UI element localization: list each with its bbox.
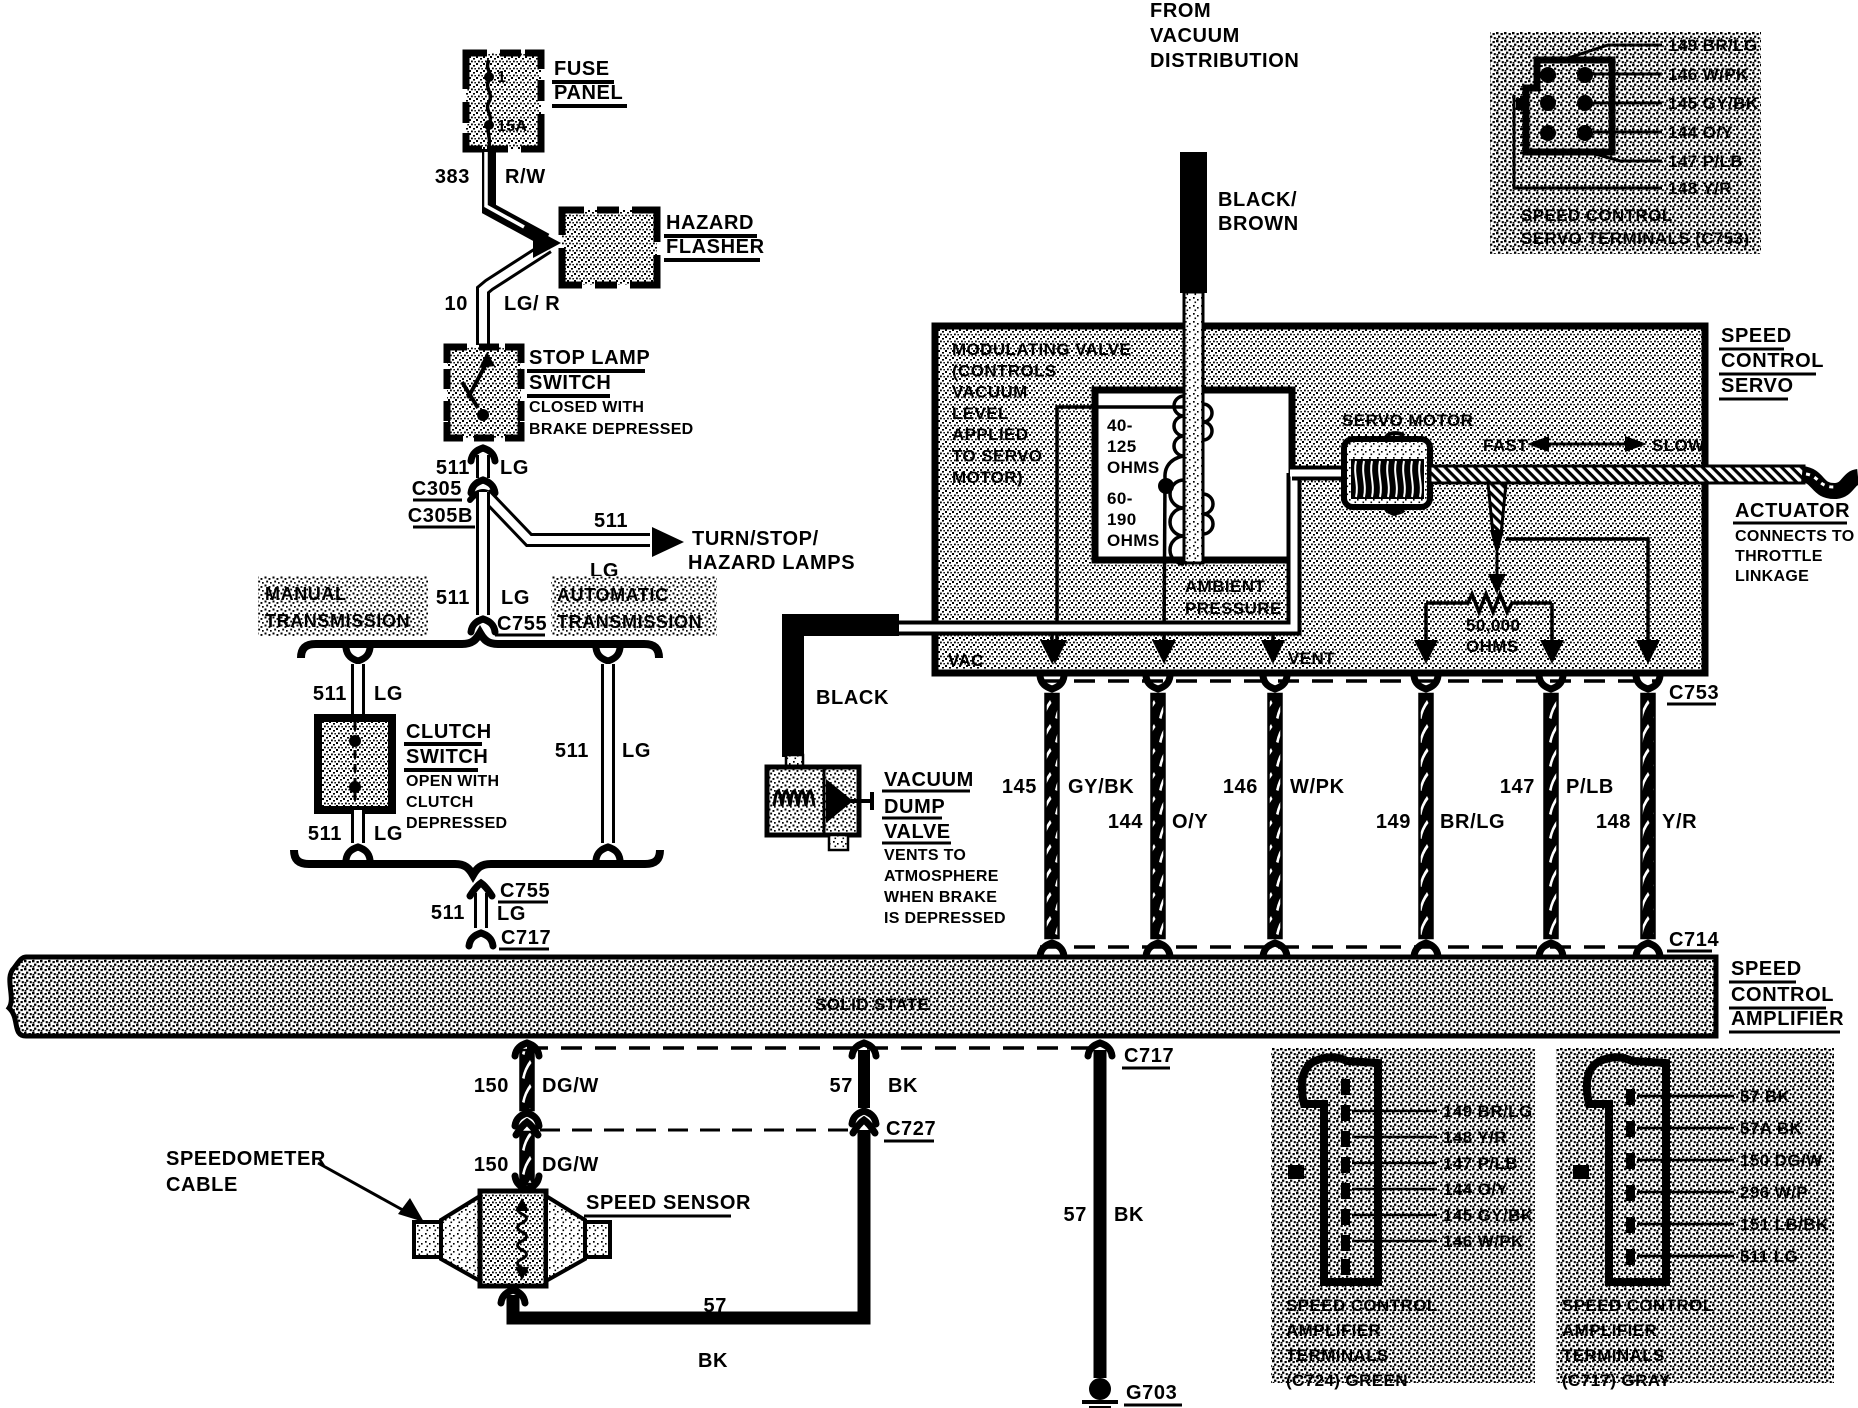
svg-text:DEPRESSED: DEPRESSED	[406, 815, 507, 832]
svg-text:DG/W: DG/W	[542, 1154, 599, 1176]
svg-text:SPEED CONTROL: SPEED CONTROL	[1562, 1296, 1714, 1315]
svg-text:BLACK/: BLACK/	[1218, 189, 1297, 211]
svg-text:P/LB: P/LB	[1566, 776, 1614, 798]
svg-text:511: 511	[431, 902, 465, 924]
svg-text:SPEED: SPEED	[1721, 325, 1792, 347]
svg-text:145 GY/BK: 145 GY/BK	[1668, 94, 1759, 113]
svg-text:40-: 40-	[1107, 416, 1133, 435]
svg-text:TO SERVO: TO SERVO	[952, 447, 1042, 466]
svg-text:C753: C753	[1669, 682, 1719, 704]
svg-text:(C717) GRAY: (C717) GRAY	[1562, 1371, 1671, 1390]
svg-text:C755: C755	[500, 880, 550, 902]
svg-text:AMPLIFIER: AMPLIFIER	[1731, 1008, 1844, 1030]
svg-text:149 BR/LG: 149 BR/LG	[1443, 1102, 1533, 1121]
svg-text:60-: 60-	[1107, 489, 1133, 508]
svg-text:O/Y: O/Y	[1172, 811, 1208, 833]
svg-text:STOP LAMP: STOP LAMP	[529, 347, 650, 369]
svg-text:SLOW: SLOW	[1652, 436, 1705, 455]
svg-text:151 LB/BK: 151 LB/BK	[1740, 1215, 1829, 1234]
svg-text:148 Y/R: 148 Y/R	[1443, 1128, 1507, 1147]
svg-text:C755: C755	[497, 613, 547, 635]
svg-text:C727: C727	[886, 1118, 936, 1140]
svg-text:148 Y/R: 148 Y/R	[1668, 179, 1732, 198]
svg-text:W/PK: W/PK	[1290, 776, 1345, 798]
svg-text:SPEED: SPEED	[1731, 958, 1802, 980]
svg-text:57A BK: 57A BK	[1740, 1119, 1803, 1138]
svg-text:146 W/PK: 146 W/PK	[1443, 1232, 1524, 1251]
svg-text:VAC: VAC	[948, 651, 984, 670]
svg-text:LG: LG	[622, 740, 651, 762]
svg-text:VENTS TO: VENTS TO	[884, 847, 966, 864]
svg-text:AMPLIFIER: AMPLIFIER	[1286, 1321, 1381, 1340]
svg-text:FLASHER: FLASHER	[666, 236, 765, 258]
svg-text:THROTTLE: THROTTLE	[1735, 548, 1823, 565]
svg-text:G703: G703	[1126, 1382, 1177, 1404]
svg-text:CONTROL: CONTROL	[1731, 984, 1834, 1006]
svg-text:SPEED SENSOR: SPEED SENSOR	[586, 1192, 751, 1214]
svg-text:OHMS: OHMS	[1107, 531, 1160, 550]
svg-text:LEVEL: LEVEL	[952, 404, 1009, 423]
svg-text:DISTRIBUTION: DISTRIBUTION	[1150, 50, 1299, 72]
svg-text:AUTOMATIC: AUTOMATIC	[557, 585, 669, 605]
svg-text:C305: C305	[412, 478, 462, 500]
svg-text:CABLE: CABLE	[166, 1174, 238, 1196]
svg-text:511: 511	[555, 740, 589, 762]
svg-text:511: 511	[436, 457, 470, 479]
svg-text:144 O/Y: 144 O/Y	[1668, 123, 1733, 142]
svg-text:LINKAGE: LINKAGE	[1735, 568, 1809, 585]
svg-text:TRANSMISSION: TRANSMISSION	[265, 611, 410, 631]
svg-text:C717: C717	[1124, 1045, 1174, 1067]
svg-text:SERVO: SERVO	[1721, 375, 1794, 397]
svg-text:TERMINALS: TERMINALS	[1286, 1346, 1389, 1365]
svg-text:LG: LG	[497, 903, 526, 925]
svg-text:BK: BK	[1114, 1204, 1144, 1226]
svg-text:C717: C717	[501, 927, 551, 949]
svg-text:CLUTCH: CLUTCH	[406, 721, 492, 743]
svg-text:AMBIENT: AMBIENT	[1185, 577, 1265, 596]
svg-text:150 DG/W: 150 DG/W	[1740, 1151, 1823, 1170]
svg-text:BROWN: BROWN	[1218, 213, 1299, 235]
svg-text:OPEN WITH: OPEN WITH	[406, 773, 499, 790]
svg-text:TRANSMISSION: TRANSMISSION	[557, 612, 702, 632]
svg-text:CLUTCH: CLUTCH	[406, 794, 474, 811]
svg-text:(CONTROLS: (CONTROLS	[952, 361, 1057, 380]
svg-text:511 LG: 511 LG	[1740, 1247, 1798, 1266]
svg-text:146: 146	[1223, 776, 1258, 798]
svg-text:MOTOR): MOTOR)	[952, 468, 1023, 487]
svg-text:LG: LG	[374, 683, 403, 705]
svg-text:125: 125	[1107, 437, 1137, 456]
svg-text:50,000: 50,000	[1466, 616, 1520, 635]
svg-text:HAZARD: HAZARD	[666, 212, 754, 234]
svg-text:C714: C714	[1669, 929, 1719, 951]
svg-text:PRESSURE: PRESSURE	[1185, 599, 1282, 618]
svg-text:147: 147	[1500, 776, 1535, 798]
svg-text:144 O/Y: 144 O/Y	[1443, 1180, 1508, 1199]
svg-text:SOLID STATE: SOLID STATE	[815, 995, 929, 1014]
svg-text:HAZARD LAMPS: HAZARD LAMPS	[688, 552, 855, 574]
svg-text:MODULATING VALVE: MODULATING VALVE	[952, 340, 1131, 359]
svg-text:APPLIED: APPLIED	[952, 425, 1028, 444]
svg-text:145: 145	[1002, 776, 1037, 798]
svg-text:150: 150	[474, 1075, 509, 1097]
svg-text:SWITCH: SWITCH	[529, 372, 611, 394]
svg-text:WHEN BRAKE: WHEN BRAKE	[884, 889, 997, 906]
svg-text:511: 511	[436, 587, 470, 609]
svg-text:ACTUATOR: ACTUATOR	[1735, 500, 1850, 522]
svg-text:146 W/PK: 146 W/PK	[1668, 65, 1749, 84]
svg-text:GY/BK: GY/BK	[1068, 776, 1134, 798]
svg-text:VALVE: VALVE	[884, 821, 951, 843]
svg-text:147 P/LB: 147 P/LB	[1668, 152, 1743, 171]
svg-text:C305B: C305B	[408, 505, 473, 527]
svg-text:145 GY/BK: 145 GY/BK	[1443, 1206, 1534, 1225]
svg-text:AMPLIFIER: AMPLIFIER	[1562, 1321, 1657, 1340]
svg-text:FROM: FROM	[1150, 0, 1211, 22]
svg-text:VACUUM: VACUUM	[952, 383, 1028, 402]
svg-text:LG: LG	[500, 457, 529, 479]
svg-text:15A: 15A	[497, 118, 527, 135]
svg-text:(C724) GREEN: (C724) GREEN	[1286, 1371, 1408, 1390]
svg-text:511: 511	[313, 683, 347, 705]
svg-text:LG: LG	[374, 823, 403, 845]
svg-text:296 W/P: 296 W/P	[1740, 1183, 1808, 1202]
svg-text:OHMS: OHMS	[1466, 637, 1519, 656]
svg-text:BR/LG: BR/LG	[1440, 811, 1505, 833]
svg-text:190: 190	[1107, 510, 1137, 529]
svg-text:SERVO TERMINALS (C753): SERVO TERMINALS (C753)	[1521, 229, 1750, 248]
svg-text:1: 1	[497, 69, 506, 86]
svg-text:CONTROL: CONTROL	[1721, 350, 1824, 372]
svg-text:149 BR/LG: 149 BR/LG	[1668, 36, 1758, 55]
svg-text:DG/W: DG/W	[542, 1075, 599, 1097]
svg-text:FUSE: FUSE	[554, 58, 610, 80]
svg-text:VENT: VENT	[1288, 649, 1335, 668]
svg-text:511: 511	[308, 823, 342, 845]
svg-text:R/W: R/W	[505, 166, 546, 188]
svg-text:149: 149	[1376, 811, 1411, 833]
svg-text:147 P/LB: 147 P/LB	[1443, 1154, 1518, 1173]
svg-text:150: 150	[474, 1154, 509, 1176]
svg-text:SERVO MOTOR: SERVO MOTOR	[1342, 411, 1473, 430]
svg-text:CLOSED WITH: CLOSED WITH	[529, 399, 644, 416]
svg-text:FAST: FAST	[1483, 436, 1528, 455]
svg-text:VACUUM: VACUUM	[884, 769, 974, 791]
svg-text:BRAKE DEPRESSED: BRAKE DEPRESSED	[529, 421, 694, 438]
svg-text:148: 148	[1596, 811, 1631, 833]
svg-text:LG: LG	[501, 587, 530, 609]
svg-text:383: 383	[435, 166, 470, 188]
svg-text:SPEED CONTROL: SPEED CONTROL	[1286, 1296, 1438, 1315]
svg-text:10: 10	[445, 293, 468, 315]
svg-text:57 BK: 57 BK	[1740, 1087, 1791, 1106]
svg-text:ATMOSPHERE: ATMOSPHERE	[884, 868, 999, 885]
svg-text:BK: BK	[888, 1075, 918, 1097]
svg-text:OHMS: OHMS	[1107, 458, 1160, 477]
svg-text:57: 57	[1064, 1204, 1087, 1226]
svg-text:144: 144	[1108, 811, 1143, 833]
svg-text:57: 57	[704, 1295, 727, 1317]
svg-text:CONNECTS TO: CONNECTS TO	[1735, 528, 1854, 545]
svg-text:VACUUM: VACUUM	[1150, 25, 1240, 47]
svg-text:511: 511	[594, 510, 628, 532]
svg-text:57: 57	[830, 1075, 853, 1097]
svg-text:SWITCH: SWITCH	[406, 746, 488, 768]
svg-text:TURN/STOP/: TURN/STOP/	[692, 528, 819, 550]
svg-text:BK: BK	[698, 1350, 728, 1372]
svg-text:SPEED CONTROL: SPEED CONTROL	[1521, 206, 1673, 225]
svg-text:PANEL: PANEL	[554, 82, 623, 104]
svg-text:DUMP: DUMP	[884, 796, 945, 818]
svg-text:Y/R: Y/R	[1662, 811, 1697, 833]
svg-text:IS DEPRESSED: IS DEPRESSED	[884, 910, 1006, 927]
svg-text:SPEEDOMETER: SPEEDOMETER	[166, 1148, 326, 1170]
svg-text:TERMINALS: TERMINALS	[1562, 1346, 1665, 1365]
svg-text:LG/ R: LG/ R	[504, 293, 560, 315]
svg-text:BLACK: BLACK	[816, 687, 889, 709]
svg-text:MANUAL: MANUAL	[265, 584, 347, 604]
